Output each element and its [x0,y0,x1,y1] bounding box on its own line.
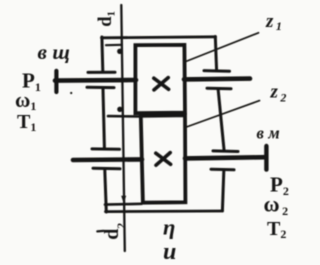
extension line at gear1 top [106,44,122,47]
label d2 ascender stroke [97,230,103,233]
housing right wall (middle segment) [218,90,224,150]
svg-text:u: u [163,239,176,265]
bearing bottom-right lower cap [211,168,234,172]
extension line at mesh [108,115,140,118]
gear z2 shaft cross mark [156,153,171,166]
gear z1 shaft cross mark [154,78,169,90]
bearing top-left lower cap [87,86,114,89]
extension line at gear2 bottom [105,203,142,206]
gear z2 rectangle [141,115,186,203]
housing bottom wall [106,210,223,213]
bearing top-right lower cap [207,87,231,91]
dimension line d1-d2 vertical [121,5,125,251]
ink speck below input shaft [70,92,72,94]
output shaft left segment [73,157,142,162]
bearing bottom-left lower cap [93,167,120,171]
leader line to z1 [185,33,259,62]
dimension arrow dot at mesh line [117,107,122,112]
bearing bottom-right upper cap [213,149,238,153]
leader line to z2 [185,101,260,128]
dimension arrow at gear2 bottom [121,196,126,204]
label d1 rotated [96,11,118,27]
svg-text:T1: T1 [17,111,36,134]
housing left wall (lower segment) [105,170,107,212]
svg-text:η: η [163,215,175,240]
svg-text:вщ: вщ [38,40,76,64]
housing left wall (middle segment) [103,89,104,148]
gear z1 rectangle [135,45,185,113]
bearing top-left upper cap [88,71,115,74]
input shaft end cap [54,71,58,92]
input shaft right segment [184,76,250,81]
svg-text:z2: z2 [270,81,287,104]
housing right wall (upper segment) [215,37,216,71]
housing top wall [102,37,216,38]
bearing bottom-left upper cap [92,147,120,150]
output shaft end cap [264,146,268,170]
housing right wall (lower segment) [222,171,223,211]
housing left wall (upper segment) [100,37,104,72]
svg-text:z1: z1 [265,11,282,33]
output shaft right segment [185,157,266,158]
svg-text:T2: T2 [267,218,286,241]
input shaft left segment [55,78,136,83]
label d2 rotated [101,223,128,240]
bearing top-right upper cap [204,69,230,73]
svg-text:d1: d1 [96,11,118,27]
svg-text:вм: вм [257,124,285,143]
dimension arrow dot at gear1 top [117,49,122,54]
